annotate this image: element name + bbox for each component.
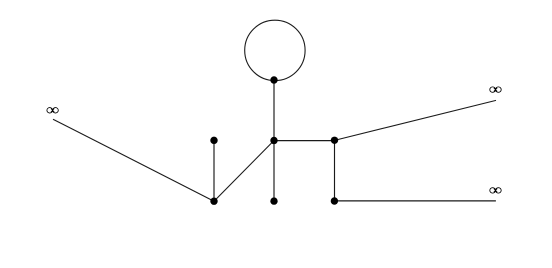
wire: ray from V6 to left infinity: [53, 119, 214, 201]
wire: edge V3 to V7 (vertical): [334, 140, 336, 201]
label: upper-right infinity symbol: [490, 87, 501, 92]
wire: edge V1 to V2 (vertical stem of loop vertex): [273, 80, 275, 141]
node V4 (upper left): [210, 137, 217, 144]
node V1 (loop vertex): [270, 76, 277, 83]
node V7 (bottom right): [331, 197, 338, 204]
node V6 (bottom left): [210, 198, 217, 205]
wire: edge V4 to V6 (vertical): [213, 140, 215, 201]
wire: edge V2 to V6 (diagonal): [214, 141, 274, 202]
node V2 (center): [270, 137, 277, 144]
label: lower-right infinity symbol: [490, 188, 501, 193]
wire: ray from V3 to upper-right infinity: [335, 100, 497, 140]
node V5 (bottom center): [270, 197, 277, 204]
wire: edge V2 to V3 (horizontal): [274, 140, 335, 142]
wire: ray from V7 to lower-right infinity: [334, 200, 496, 202]
self-loop circle at vertex V1: [245, 20, 305, 80]
node V3 (upper right): [331, 137, 338, 144]
wire: edge V2 to V5 (vertical): [273, 141, 275, 202]
label: left infinity symbol: [47, 108, 58, 113]
